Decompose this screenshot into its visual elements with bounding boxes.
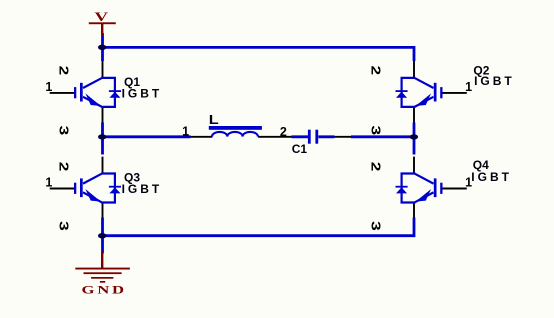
svg-text:2: 2 (369, 162, 383, 172)
svg-text:1: 1 (465, 80, 472, 94)
svg-text:2: 2 (369, 66, 383, 76)
svg-text:2: 2 (280, 125, 287, 139)
svg-text:3: 3 (57, 221, 71, 231)
svg-text:V: V (95, 11, 109, 24)
svg-text:3: 3 (369, 126, 383, 136)
svg-text:IGBT: IGBT (122, 86, 163, 100)
svg-text:1: 1 (465, 175, 472, 189)
svg-text:2: 2 (57, 66, 71, 76)
svg-text:IGBT: IGBT (474, 74, 515, 88)
svg-text:1: 1 (45, 175, 52, 189)
svg-text:3: 3 (369, 221, 383, 231)
svg-text:GND: GND (82, 284, 127, 297)
svg-text:3: 3 (57, 126, 71, 136)
svg-text:IGBT: IGBT (122, 182, 163, 196)
svg-text:IGBT: IGBT (471, 170, 512, 184)
svg-text:1: 1 (182, 125, 189, 139)
svg-text:1: 1 (45, 80, 52, 94)
svg-text:C1: C1 (292, 142, 308, 156)
svg-text:L: L (209, 113, 219, 127)
svg-text:2: 2 (57, 162, 71, 172)
